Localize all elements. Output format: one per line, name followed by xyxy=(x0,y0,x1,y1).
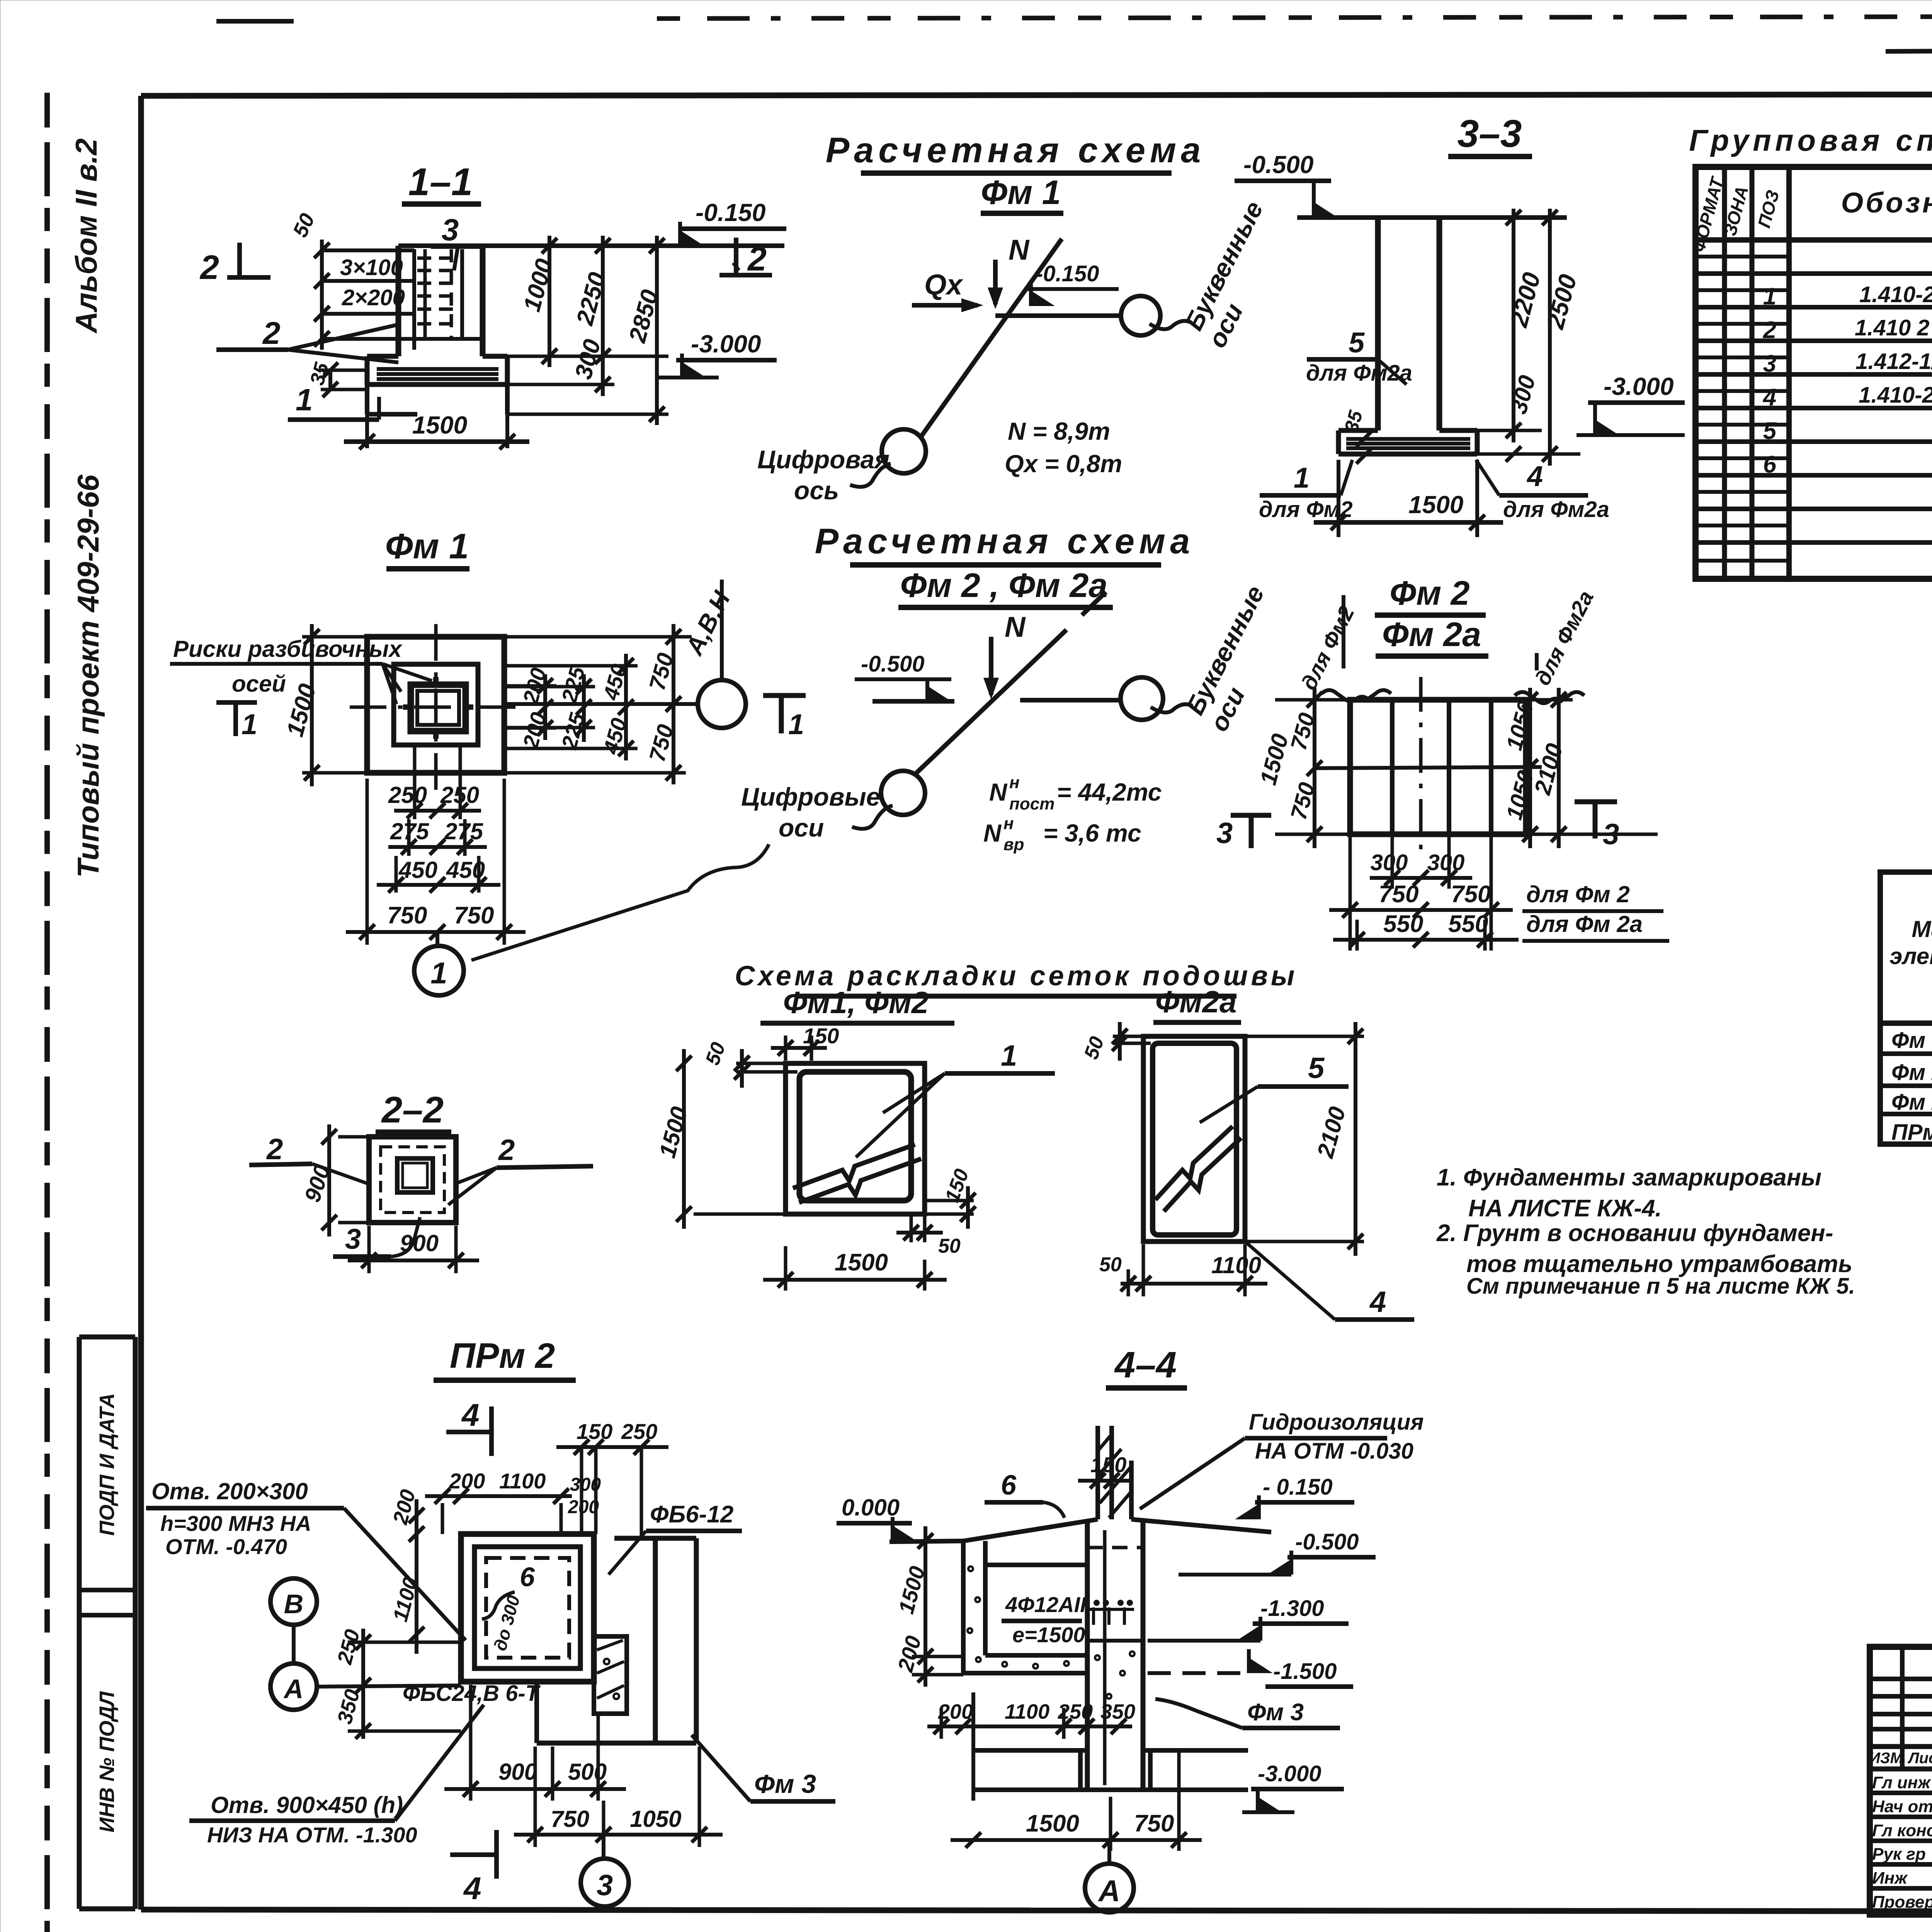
svg-text:= 3,6 тс: = 3,6 тс xyxy=(1043,819,1141,847)
left pit wall below ground (speckled) xyxy=(961,1541,966,1673)
svg-text:350: 350 xyxy=(333,1687,364,1727)
svg-text:ИНВ № ПОДЛ: ИНВ № ПОДЛ xyxy=(95,1691,119,1833)
svg-text:-0.500: -0.500 xyxy=(1243,151,1313,179)
leaders to plan xyxy=(383,664,401,692)
svg-text:вр: вр xyxy=(1003,835,1024,854)
svg-text:Марка: Марка xyxy=(1912,916,1932,942)
svg-text:А,В,Н: А,В,Н xyxy=(680,586,736,660)
svg-text:Фм 2: Фм 2 xyxy=(1389,574,1469,612)
svg-text:1: 1 xyxy=(430,956,447,990)
dim chain 275/275 xyxy=(407,819,411,856)
svg-text:h=300 МН3 НА: h=300 МН3 НА xyxy=(160,1511,311,1536)
svg-text:для Фм2: для Фм2 xyxy=(1296,602,1359,694)
svg-text:Гидроизоляция: Гидроизоляция xyxy=(1249,1410,1424,1435)
svg-text:1500: 1500 xyxy=(1408,491,1463,519)
svg-text:50: 50 xyxy=(288,210,319,241)
svg-text:2250: 2250 xyxy=(571,270,611,328)
left dims 750/750 and 1500 xyxy=(1275,698,1348,702)
stakan square xyxy=(394,664,478,745)
svg-text:4–4: 4–4 xyxy=(1114,1344,1177,1386)
svg-text:1: 1 xyxy=(1294,462,1310,494)
frame bottom xyxy=(141,1910,1932,1912)
svg-text:300: 300 xyxy=(570,337,606,382)
step / footing xyxy=(367,354,398,359)
stakan inner squares xyxy=(397,1158,433,1192)
plan rectangle xyxy=(1350,700,1526,834)
svg-text:См примечание п 5 на листе К: См примечание п 5 на листе КЖ 5. xyxy=(1466,1274,1855,1299)
section mark 1 left xyxy=(216,700,257,705)
svg-text:Цифровая: Цифровая xyxy=(757,445,889,474)
right dim chains 2200 / 2500 / 300 xyxy=(1439,216,1563,219)
svg-text:Фм1, Фм2: Фм1, Фм2 xyxy=(783,985,929,1020)
svg-text:1: 1 xyxy=(241,708,257,740)
svg-text:3: 3 xyxy=(1216,817,1233,850)
left dim chain 50 / 3x100 / 2x200 xyxy=(322,248,414,252)
svg-text:до 300: до 300 xyxy=(490,1593,524,1653)
svg-text:Фм 1: Фм 1 xyxy=(981,173,1061,211)
svg-text:450: 450 xyxy=(446,857,485,883)
svg-text:1100: 1100 xyxy=(499,1469,546,1493)
column square thick xyxy=(411,685,466,731)
svg-text:1500: 1500 xyxy=(412,411,467,439)
svg-text:3: 3 xyxy=(442,213,459,247)
svg-text:В: В xyxy=(284,1589,304,1619)
svg-text:Групповая спецификация для: Групповая спецификация для монолитных эл… xyxy=(1689,123,1932,157)
right dims 1050/1050 and 2100 xyxy=(1528,698,1573,702)
dim chain 450/450 xyxy=(395,856,398,893)
outer square xyxy=(369,1137,456,1223)
svg-text:750: 750 xyxy=(454,902,494,929)
svg-text:N: N xyxy=(1005,611,1026,643)
svg-text:Инж: Инж xyxy=(1872,1869,1908,1888)
svg-text:2100: 2100 xyxy=(1312,1104,1351,1161)
section mark T1 right xyxy=(763,693,806,698)
excavation bottom lines xyxy=(973,1748,1087,1753)
svg-text:750: 750 xyxy=(551,1806,589,1832)
svg-text:Провер: Провер xyxy=(1872,1893,1932,1912)
svg-text:4: 4 xyxy=(1369,1286,1386,1318)
svg-text:300: 300 xyxy=(570,1475,601,1495)
svg-text:Гл констр: Гл констр xyxy=(1872,1821,1932,1840)
mesh diagonal symbol xyxy=(1155,1126,1233,1200)
inner ring (rebar) xyxy=(381,1147,444,1213)
diagonal axis line xyxy=(922,239,1062,436)
hatched concrete patch xyxy=(594,1636,627,1714)
svg-text:НА ОТМ -0.030: НА ОТМ -0.030 xyxy=(1255,1439,1413,1464)
svg-text:250: 250 xyxy=(621,1419,657,1444)
svg-text:50: 50 xyxy=(1099,1253,1122,1276)
svg-text:1. Фундаменты замаркированы: 1. Фундаменты замаркированы xyxy=(1437,1164,1821,1191)
axis horizontal lines xyxy=(872,699,954,704)
svg-text:для Фм 2а: для Фм 2а xyxy=(1526,911,1643,937)
frame top xyxy=(141,94,1932,96)
section mark 4 bottom xyxy=(450,1852,497,1857)
svg-text:е=1500: е=1500 xyxy=(1012,1622,1085,1647)
svg-text:2: 2 xyxy=(1763,317,1776,344)
svg-text:Альбом II в.2: Альбом II в.2 xyxy=(69,138,103,334)
svg-text:5: 5 xyxy=(1349,327,1365,359)
letter axis circle xyxy=(1121,677,1163,720)
svg-text:0.000: 0.000 xyxy=(842,1495,900,1520)
svg-text:900: 900 xyxy=(498,1759,537,1785)
frame left xyxy=(138,96,144,1910)
svg-text:2: 2 xyxy=(498,1134,515,1167)
svg-text:-0.150: -0.150 xyxy=(696,199,765,226)
outer border xyxy=(1696,167,1932,579)
circle 3 bottom xyxy=(602,1835,605,1858)
svg-text:5: 5 xyxy=(1308,1052,1325,1085)
svg-text:ПРм 2: ПРм 2 xyxy=(1891,1120,1932,1145)
svg-text:1: 1 xyxy=(296,383,313,417)
svg-text:2–2: 2–2 xyxy=(381,1089,444,1131)
section mark 3 right (T3) xyxy=(1575,799,1617,804)
svg-text:4: 4 xyxy=(461,1398,480,1433)
svg-text:750: 750 xyxy=(1451,881,1491,908)
svg-text:1: 1 xyxy=(788,708,804,740)
svg-text:ось: ось xyxy=(794,476,839,505)
horizontal axis xyxy=(1315,767,1542,768)
svg-text:3: 3 xyxy=(1603,818,1619,851)
svg-text:750: 750 xyxy=(1134,1810,1174,1837)
bottom dim 300 300 xyxy=(1391,837,1394,889)
svg-text:1: 1 xyxy=(1763,283,1776,310)
section mark 3 left xyxy=(1231,813,1271,818)
mesh lines in footing xyxy=(377,367,498,371)
svg-text:1050: 1050 xyxy=(1502,698,1539,753)
svg-text:Qх = 0,8т: Qх = 0,8т xyxy=(1005,450,1122,478)
svg-text:275: 275 xyxy=(444,818,484,844)
column xyxy=(1375,218,1381,430)
svg-text:-3.000: -3.000 xyxy=(1604,372,1673,400)
svg-text:2: 2 xyxy=(262,316,281,351)
svg-text:1500: 1500 xyxy=(1255,731,1293,787)
svg-text:2: 2 xyxy=(266,1133,283,1166)
ground line xyxy=(889,1541,963,1542)
svg-text:Фм 1: Фм 1 xyxy=(385,527,469,566)
svg-text:1.410 2 вып. 1 л-Б: 1.410 2 вып. 1 л-Б xyxy=(1855,315,1932,340)
svg-text:1–1: 1–1 xyxy=(408,160,473,204)
svg-text:А: А xyxy=(283,1674,304,1704)
svg-text:-3.000: -3.000 xyxy=(1258,1761,1321,1786)
column top line extends right to elevation flag xyxy=(398,243,784,248)
svg-text:НА ЛИСТЕ КЖ-4.: НА ЛИСТЕ КЖ-4. xyxy=(1468,1195,1662,1222)
inner rebar dashed cage xyxy=(412,249,416,350)
number axis circle xyxy=(881,771,925,815)
svg-text:-0.150: -0.150 xyxy=(1036,261,1099,286)
footing xyxy=(1338,428,1378,433)
svg-text:750: 750 xyxy=(1379,881,1418,908)
svg-text:3: 3 xyxy=(345,1223,361,1255)
svg-text:Цифровые: Цифровые xyxy=(741,782,880,811)
outer square xyxy=(367,637,504,773)
svg-text:н: н xyxy=(1003,814,1014,833)
svg-text:ПРм 2: ПРм 2 xyxy=(450,1336,555,1376)
top paper edge dashed line xyxy=(657,15,1932,19)
svg-text:Типовый проект 409-29-66: Типовый проект 409-29-66 xyxy=(71,474,105,878)
svg-text:элемента: элемента xyxy=(1889,943,1932,969)
pit interior horizontal xyxy=(985,1563,1087,1567)
svg-text:1100: 1100 xyxy=(1005,1700,1049,1723)
svg-text:6: 6 xyxy=(520,1562,535,1592)
internal verticals xyxy=(1390,700,1395,834)
svg-text:500: 500 xyxy=(568,1759,607,1785)
svg-text:1: 1 xyxy=(1001,1039,1017,1072)
svg-text:Фм 2 , Фм 2а: Фм 2 , Фм 2а xyxy=(900,566,1108,604)
excavation below footing xyxy=(365,384,369,414)
svg-text:550: 550 xyxy=(1448,911,1488,937)
svg-text:н: н xyxy=(1009,773,1020,792)
svg-text:ФБ6-12: ФБ6-12 xyxy=(650,1501,733,1528)
svg-text:1.410-2 вып.1 Л-23: 1.410-2 вып.1 Л-23 xyxy=(1859,383,1932,408)
footing widening xyxy=(1078,1749,1083,1790)
svg-text:2: 2 xyxy=(747,240,767,278)
svg-text:N: N xyxy=(989,778,1008,806)
horizontal line to letter-axis circle xyxy=(995,313,1121,318)
svg-text:200: 200 xyxy=(568,1497,599,1517)
svg-text:2100: 2100 xyxy=(1529,741,1568,798)
svg-text:оси: оси xyxy=(779,813,824,842)
svg-text:Обозначение: Обозначение xyxy=(1841,187,1932,219)
svg-text:1100: 1100 xyxy=(1211,1252,1261,1278)
svg-text:200: 200 xyxy=(518,710,551,752)
svg-text:200: 200 xyxy=(893,1633,925,1675)
horizontal row lines xyxy=(1696,237,1932,243)
svg-text:для Фм2а: для Фм2а xyxy=(1530,587,1599,689)
svg-text:2500: 2500 xyxy=(1541,271,1582,332)
svg-text:6: 6 xyxy=(1001,1470,1017,1501)
svg-text:Фм 2: Фм 2 xyxy=(1891,1060,1932,1085)
svg-text:для Фм2а: для Фм2а xyxy=(1306,361,1412,386)
svg-text:1500: 1500 xyxy=(1026,1810,1079,1837)
svg-text:3×100: 3×100 xyxy=(340,255,403,280)
vertical lines xyxy=(1722,167,1727,579)
axes dashed xyxy=(350,706,520,709)
svg-text:3: 3 xyxy=(597,1869,613,1902)
svg-text:4: 4 xyxy=(1526,460,1543,492)
svg-text:4Ф12АII: 4Ф12АII xyxy=(1005,1592,1087,1617)
svg-text:А: А xyxy=(1098,1874,1120,1908)
svg-text:350: 350 xyxy=(1100,1700,1135,1723)
svg-text:275: 275 xyxy=(390,818,430,844)
column outline xyxy=(396,246,401,356)
svg-text:-1.300: -1.300 xyxy=(1260,1596,1324,1621)
diagonal xyxy=(916,630,1066,773)
svg-text:1500: 1500 xyxy=(282,681,321,740)
svg-text:750: 750 xyxy=(387,902,427,929)
svg-text:225: 225 xyxy=(556,710,590,752)
svg-text:1500: 1500 xyxy=(835,1249,888,1276)
svg-text:-3.000: -3.000 xyxy=(691,330,761,358)
svg-text:1.412-1/77-83-020: 1.412-1/77-83-020 xyxy=(1855,349,1932,374)
svg-text:Фм 3: Фм 3 xyxy=(754,1769,816,1799)
svg-text:2. Грунт в основании фундам: 2. Грунт в основании фундамен- xyxy=(1436,1220,1833,1247)
svg-text:300: 300 xyxy=(1505,372,1541,417)
hatched wall above ground xyxy=(1095,1426,1100,1519)
svg-text:ПОЗ: ПОЗ xyxy=(1754,188,1783,230)
right dim chains xyxy=(483,244,556,248)
svg-text:300: 300 xyxy=(1371,850,1408,875)
svg-text:2: 2 xyxy=(199,248,219,286)
svg-text:5: 5 xyxy=(1763,418,1777,444)
svg-text:для Фм 2: для Фм 2 xyxy=(1526,881,1630,907)
svg-text:Расчетная схема: Расчетная схема xyxy=(826,131,1205,170)
circle 1 below xyxy=(435,932,439,946)
svg-text:N: N xyxy=(983,819,1002,847)
svg-text:Фм 2а: Фм 2а xyxy=(1891,1090,1932,1115)
svg-text:Qх: Qх xyxy=(924,269,964,301)
outer border xyxy=(1870,1647,1932,1915)
letter axis circle xyxy=(1121,296,1160,335)
svg-text:1050: 1050 xyxy=(630,1806,681,1832)
extra lines in left columns xyxy=(1696,255,1789,259)
svg-text:50: 50 xyxy=(701,1039,730,1068)
svg-text:Нач отд.: Нач отд. xyxy=(1872,1797,1932,1816)
svg-text:1.410-2 вып.1 л-61: 1.410-2 вып.1 л-61 xyxy=(1859,282,1932,307)
dim chain 750/750 xyxy=(366,779,369,945)
svg-text:4: 4 xyxy=(463,1871,481,1906)
left stamp horizontals top area xyxy=(1870,1677,1932,1681)
right dim chains xyxy=(506,635,692,639)
bottom dim 750 750 xyxy=(1349,837,1352,951)
svg-text:Отв. 900×450 (h): Отв. 900×450 (h) xyxy=(211,1792,403,1818)
svg-text:3: 3 xyxy=(1763,350,1776,377)
pit squares xyxy=(461,1534,594,1682)
svg-text:пост: пост xyxy=(1009,794,1054,813)
svg-text:N = 8,9т: N = 8,9т xyxy=(1008,417,1110,445)
left bottom stamp strip xyxy=(77,1337,82,1909)
svg-text:Гл инж пр: Гл инж пр xyxy=(1872,1773,1932,1792)
FM3 wall right xyxy=(614,1536,696,1541)
svg-text:1000: 1000 xyxy=(519,256,558,315)
svg-text:50: 50 xyxy=(938,1235,961,1257)
svg-text:550: 550 xyxy=(1383,911,1423,937)
svg-text:Фм 3: Фм 3 xyxy=(1247,1699,1304,1726)
svg-text:-0.500: -0.500 xyxy=(861,651,924,677)
svg-text:ПОДП И ДАТА: ПОДП И ДАТА xyxy=(95,1393,119,1536)
svg-text:N: N xyxy=(1009,234,1030,266)
svg-text:50: 50 xyxy=(1080,1034,1109,1062)
FM2a mesh rect xyxy=(1143,1036,1245,1242)
circle A bottom xyxy=(1107,1840,1111,1863)
FM1/FM2 mesh square xyxy=(786,1063,925,1214)
svg-text:ИЗМ: ИЗМ xyxy=(1869,1750,1903,1767)
svg-text:-0.500: -0.500 xyxy=(1295,1529,1359,1554)
svg-text:= 44,2тс: = 44,2тс xyxy=(1057,778,1162,806)
svg-text:6: 6 xyxy=(1763,451,1777,478)
column footing speckled xyxy=(1087,1639,1143,1643)
svg-text:300: 300 xyxy=(1427,850,1465,875)
axis circles B and A xyxy=(270,1578,317,1625)
svg-text:Рук гр: Рук гр xyxy=(1872,1845,1926,1864)
svg-text:для Фм2а: для Фм2а xyxy=(1503,497,1609,522)
svg-text:-1.500: -1.500 xyxy=(1273,1659,1337,1684)
central column FM3 xyxy=(1085,1519,1090,1790)
number axis circle xyxy=(882,429,926,473)
dim chain 250/250 xyxy=(413,746,417,819)
svg-text:3–3: 3–3 xyxy=(1458,112,1522,155)
risk ticks xyxy=(433,677,439,685)
svg-text:НИЗ НА ОТМ. -1.300: НИЗ НА ОТМ. -1.300 xyxy=(207,1823,417,1847)
svg-text:Фм 1: Фм 1 xyxy=(1891,1028,1932,1053)
svg-text:Расчетная схема: Расчетная схема xyxy=(815,522,1194,561)
svg-text:Фм2а: Фм2а xyxy=(1155,985,1237,1019)
svg-text:Лист: Лист xyxy=(1907,1750,1932,1767)
svg-text:2200: 2200 xyxy=(1505,269,1546,330)
svg-text:Фм 2а: Фм 2а xyxy=(1382,615,1481,653)
svg-text:150: 150 xyxy=(803,1024,839,1048)
mesh diagonal symbol xyxy=(793,1145,915,1188)
left stamp verticals xyxy=(1900,1647,1905,1769)
top ground line xyxy=(1297,215,1567,220)
svg-text:Отв. 200×300: Отв. 200×300 xyxy=(151,1478,308,1504)
svg-text:2×200: 2×200 xyxy=(342,285,405,310)
svg-text:ОТМ. -0.470: ОТМ. -0.470 xyxy=(165,1534,287,1559)
top right solid edge line xyxy=(1886,47,1932,51)
svg-text:4: 4 xyxy=(1762,384,1776,411)
left dim 1500 xyxy=(302,635,365,639)
svg-text:150: 150 xyxy=(577,1419,612,1444)
left rough paper edge dashed vertical xyxy=(44,93,50,1932)
svg-text:осей: осей xyxy=(232,671,286,697)
svg-text:1500: 1500 xyxy=(654,1104,692,1160)
svg-text:- 0.150: - 0.150 xyxy=(1263,1475,1333,1500)
